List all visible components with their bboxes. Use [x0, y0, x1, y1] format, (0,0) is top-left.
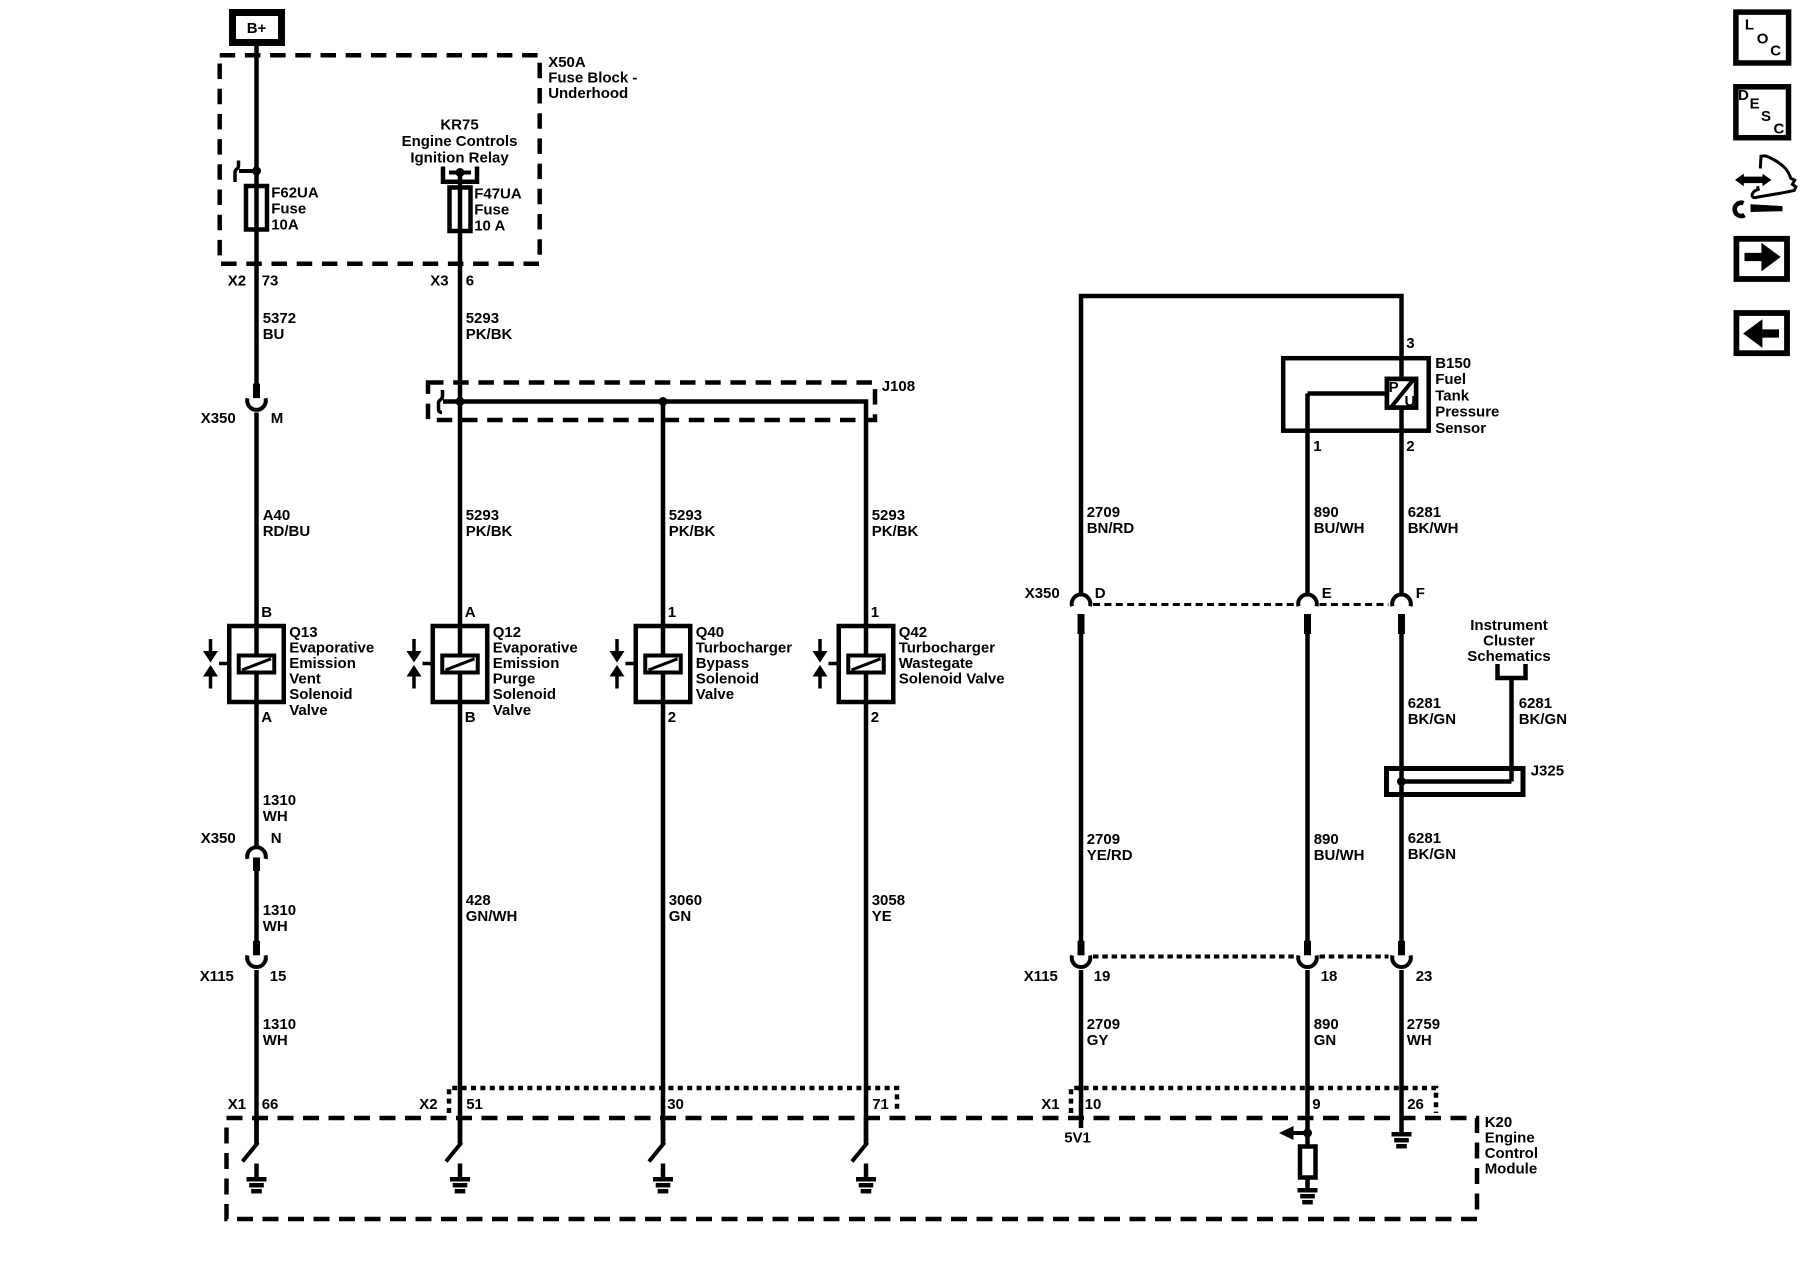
svg-text:PK/BK: PK/BK	[669, 523, 716, 540]
svg-text:Q42: Q42	[899, 624, 927, 641]
svg-text:Cluster: Cluster	[1483, 633, 1535, 650]
svg-text:BU: BU	[263, 326, 285, 343]
svg-text:18: 18	[1321, 968, 1338, 985]
svg-text:5V1: 5V1	[1064, 1130, 1091, 1147]
svg-text:Valve: Valve	[289, 702, 327, 719]
svg-text:GY: GY	[1087, 1032, 1109, 1049]
svg-text:Valve: Valve	[493, 702, 531, 719]
svg-text:B+: B+	[247, 20, 267, 37]
svg-text:Purge: Purge	[493, 671, 536, 688]
svg-text:BK/GN: BK/GN	[1519, 711, 1567, 728]
svg-text:1310: 1310	[263, 792, 296, 809]
svg-text:1: 1	[1313, 438, 1321, 455]
svg-text:19: 19	[1094, 968, 1111, 985]
svg-text:X115: X115	[200, 968, 234, 985]
svg-text:C: C	[1770, 42, 1781, 59]
svg-text:51: 51	[466, 1096, 483, 1113]
svg-text:D: D	[1738, 87, 1749, 104]
svg-text:P: P	[1389, 379, 1399, 396]
svg-text:6: 6	[466, 273, 474, 290]
svg-text:1: 1	[668, 604, 676, 621]
svg-text:L: L	[1745, 16, 1754, 33]
svg-text:6281: 6281	[1408, 504, 1441, 521]
svg-text:WH: WH	[1407, 1032, 1432, 1049]
svg-text:Q12: Q12	[493, 624, 521, 641]
svg-text:3060: 3060	[669, 892, 702, 909]
svg-text:U: U	[1404, 393, 1415, 410]
svg-text:2709: 2709	[1087, 831, 1120, 848]
svg-text:B: B	[261, 604, 272, 621]
svg-text:1310: 1310	[263, 1016, 296, 1033]
svg-text:YE/RD: YE/RD	[1087, 847, 1133, 864]
svg-text:5293: 5293	[669, 507, 702, 524]
svg-text:B: B	[465, 709, 476, 726]
svg-text:D: D	[1095, 585, 1106, 602]
svg-text:BK/GN: BK/GN	[1408, 846, 1456, 863]
svg-text:BN/RD: BN/RD	[1087, 520, 1135, 537]
svg-text:X3: X3	[430, 273, 448, 290]
svg-text:Ignition Relay: Ignition Relay	[410, 150, 509, 167]
svg-text:B150: B150	[1435, 355, 1471, 372]
svg-text:X350: X350	[1025, 585, 1060, 602]
svg-text:GN: GN	[669, 908, 692, 925]
svg-text:Module: Module	[1485, 1161, 1538, 1178]
svg-text:E: E	[1750, 96, 1760, 113]
svg-text:2: 2	[668, 709, 676, 726]
svg-text:X50A: X50A	[548, 54, 586, 71]
svg-text:Solenoid: Solenoid	[493, 686, 556, 703]
svg-text:A40: A40	[263, 507, 291, 524]
svg-text:1310: 1310	[263, 902, 296, 919]
svg-text:C: C	[1773, 121, 1784, 138]
svg-text:PK/BK: PK/BK	[466, 523, 513, 540]
svg-text:2709: 2709	[1087, 504, 1120, 521]
svg-text:Fuse: Fuse	[271, 201, 306, 218]
svg-text:Solenoid Valve: Solenoid Valve	[899, 671, 1005, 688]
svg-text:F: F	[1416, 585, 1425, 602]
svg-text:X2: X2	[228, 273, 246, 290]
svg-text:Q13: Q13	[289, 624, 317, 641]
svg-text:K20: K20	[1485, 1114, 1513, 1131]
svg-text:23: 23	[1416, 968, 1433, 985]
svg-text:Evaporative: Evaporative	[289, 639, 374, 656]
svg-text:X115: X115	[1024, 968, 1058, 985]
svg-text:2: 2	[871, 709, 879, 726]
svg-text:Wastegate: Wastegate	[899, 655, 973, 672]
svg-text:A: A	[465, 604, 476, 621]
svg-text:J108: J108	[882, 378, 915, 395]
svg-text:J325: J325	[1531, 763, 1564, 780]
svg-text:Evaporative: Evaporative	[493, 639, 578, 656]
svg-text:BK/GN: BK/GN	[1408, 711, 1456, 728]
svg-text:Schematics: Schematics	[1467, 648, 1550, 665]
svg-text:73: 73	[262, 273, 279, 290]
svg-text:Fuse Block -: Fuse Block -	[548, 70, 637, 87]
svg-text:9: 9	[1312, 1096, 1320, 1113]
svg-text:Turbocharger: Turbocharger	[899, 639, 996, 656]
svg-text:Pressure: Pressure	[1435, 404, 1499, 421]
svg-text:3058: 3058	[872, 892, 905, 909]
svg-text:10: 10	[1085, 1096, 1102, 1113]
svg-text:Emission: Emission	[289, 655, 356, 672]
svg-text:BK/WH: BK/WH	[1408, 520, 1459, 537]
svg-text:Bypass: Bypass	[696, 655, 749, 672]
svg-text:Engine: Engine	[1485, 1130, 1535, 1147]
svg-text:RD/BU: RD/BU	[263, 523, 311, 540]
svg-text:X350: X350	[201, 830, 236, 847]
svg-text:PK/BK: PK/BK	[872, 523, 919, 540]
svg-text:X1: X1	[228, 1096, 246, 1113]
svg-text:Instrument: Instrument	[1470, 617, 1548, 634]
svg-text:5293: 5293	[466, 507, 499, 524]
svg-text:5293: 5293	[872, 507, 905, 524]
svg-text:BU/WH: BU/WH	[1314, 520, 1365, 537]
svg-text:GN/WH: GN/WH	[466, 908, 518, 925]
svg-text:X2: X2	[419, 1096, 437, 1113]
svg-text:890: 890	[1314, 831, 1339, 848]
svg-text:1: 1	[871, 604, 879, 621]
svg-text:Solenoid: Solenoid	[696, 671, 759, 688]
svg-text:Valve: Valve	[696, 686, 734, 703]
svg-text:71: 71	[872, 1096, 889, 1113]
svg-text:428: 428	[466, 892, 491, 909]
svg-text:Control: Control	[1485, 1145, 1538, 1162]
svg-text:Solenoid: Solenoid	[289, 686, 352, 703]
svg-text:66: 66	[262, 1096, 279, 1113]
svg-text:WH: WH	[263, 808, 288, 825]
svg-text:Engine Controls: Engine Controls	[402, 133, 518, 150]
svg-text:Emission: Emission	[493, 655, 560, 672]
svg-text:M: M	[271, 410, 284, 427]
svg-text:2759: 2759	[1407, 1016, 1440, 1033]
svg-text:WH: WH	[263, 1032, 288, 1049]
svg-text:Turbocharger: Turbocharger	[696, 639, 793, 656]
svg-text:30: 30	[667, 1096, 684, 1113]
svg-text:6281: 6281	[1519, 695, 1552, 712]
svg-text:X1: X1	[1041, 1096, 1059, 1113]
svg-text:Fuel: Fuel	[1435, 371, 1466, 388]
svg-text:E: E	[1322, 585, 1332, 602]
svg-text:YE: YE	[872, 908, 892, 925]
svg-text:Sensor: Sensor	[1435, 420, 1486, 437]
svg-text:F47UA: F47UA	[474, 186, 522, 203]
svg-text:A: A	[261, 709, 272, 726]
svg-text:F62UA: F62UA	[271, 185, 319, 202]
svg-text:WH: WH	[263, 918, 288, 935]
svg-text:15: 15	[270, 968, 287, 985]
svg-text:890: 890	[1314, 504, 1339, 521]
svg-text:26: 26	[1407, 1096, 1424, 1113]
svg-text:10 A: 10 A	[474, 218, 505, 235]
svg-text:6281: 6281	[1408, 695, 1441, 712]
svg-text:O: O	[1757, 31, 1769, 48]
svg-text:2709: 2709	[1087, 1016, 1120, 1033]
svg-text:KR75: KR75	[440, 117, 478, 134]
svg-text:N: N	[271, 830, 282, 847]
svg-text:Tank: Tank	[1435, 387, 1470, 404]
svg-text:2: 2	[1406, 438, 1414, 455]
svg-text:Fuse: Fuse	[474, 202, 509, 219]
svg-text:Underhood: Underhood	[548, 85, 628, 102]
svg-text:PK/BK: PK/BK	[466, 326, 513, 343]
svg-text:5293: 5293	[466, 310, 499, 327]
svg-text:BU/WH: BU/WH	[1314, 847, 1365, 864]
svg-text:3: 3	[1406, 335, 1414, 352]
svg-text:X350: X350	[201, 410, 236, 427]
svg-text:10A: 10A	[271, 217, 299, 234]
svg-text:Q40: Q40	[696, 624, 724, 641]
svg-text:GN: GN	[1314, 1032, 1337, 1049]
svg-text:S: S	[1761, 108, 1771, 125]
svg-text:5372: 5372	[263, 310, 296, 327]
svg-text:Vent: Vent	[289, 671, 321, 688]
svg-text:6281: 6281	[1408, 830, 1441, 847]
svg-text:890: 890	[1314, 1016, 1339, 1033]
